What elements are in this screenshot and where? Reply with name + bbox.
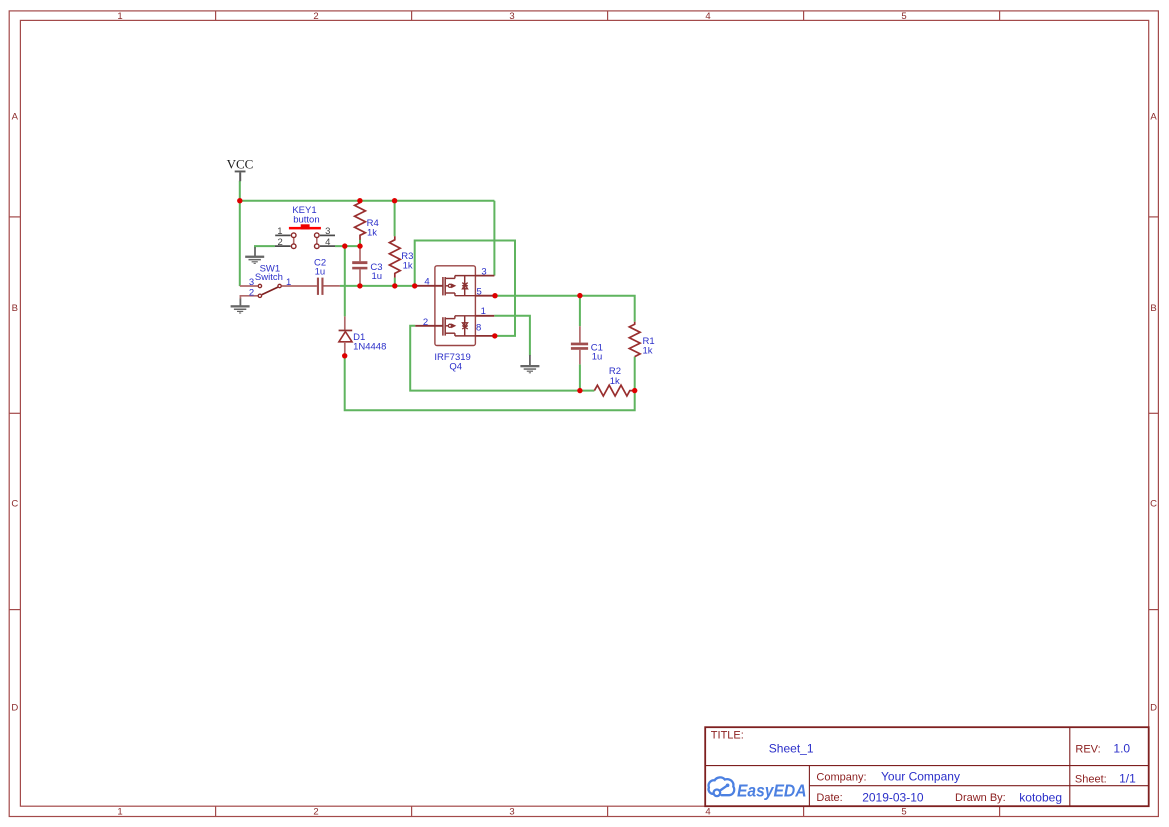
svg-text:1: 1: [117, 11, 122, 22]
Q4 lower N-FET: [415, 316, 495, 336]
wire top rail to pin3: [493, 201, 495, 276]
wire R3 top: [394, 201, 396, 237]
svg-text:1k: 1k: [403, 260, 413, 271]
svg-text:2019-03-10: 2019-03-10: [862, 790, 924, 804]
junction C1 top: [577, 293, 582, 298]
wire pin2 stub: [410, 326, 594, 391]
svg-text:C: C: [11, 499, 18, 510]
svg-text:2: 2: [313, 807, 318, 818]
svg-text:5: 5: [901, 11, 906, 22]
svg-text:1u: 1u: [372, 271, 383, 282]
svg-text:1.0: 1.0: [1113, 741, 1130, 755]
capacitor C3: [352, 246, 382, 286]
svg-text:TITLE:: TITLE:: [711, 729, 744, 741]
wire KEY1 pin2 to ground: [255, 246, 275, 248]
svg-text:VCC: VCC: [227, 157, 254, 172]
svg-text:3: 3: [249, 277, 254, 288]
wire mid to pin8 loop: [415, 241, 515, 336]
junction VCC rail left: [237, 198, 242, 203]
wire VCC vertical: [240, 181, 635, 410]
svg-text:1N4448: 1N4448: [353, 341, 386, 352]
wire R3 bottom: [394, 278, 396, 286]
svg-text:2: 2: [278, 237, 283, 248]
svg-text:1u: 1u: [315, 267, 326, 278]
svg-text:8: 8: [476, 323, 481, 334]
wire C1 bottom: [579, 364, 581, 390]
EasyEDA logo: [709, 777, 735, 796]
pushbutton KEY1: [275, 205, 335, 249]
svg-text:REV:: REV:: [1075, 743, 1100, 755]
wire C1 top: [579, 296, 581, 327]
wire pin5 to R1 top: [495, 296, 635, 322]
svg-text:D: D: [11, 703, 18, 714]
resistor R3: [389, 236, 413, 277]
svg-text:1k: 1k: [367, 228, 377, 239]
TITLE BLOCK: [705, 727, 1148, 806]
VCC symbol: [227, 157, 254, 182]
ground at KEY1 pin2: [245, 247, 264, 264]
svg-text:1/1: 1/1: [1119, 772, 1136, 786]
junction R4 top: [357, 198, 362, 203]
svg-text:1: 1: [117, 807, 122, 818]
svg-text:1: 1: [286, 277, 291, 288]
svg-text:4: 4: [424, 277, 429, 288]
ground at Q4 pin1 wire: [520, 355, 539, 373]
svg-text:B: B: [12, 303, 18, 314]
wire R1 bottom: [634, 357, 636, 391]
svg-text:Your Company: Your Company: [881, 769, 960, 783]
svg-text:A: A: [1150, 112, 1157, 123]
junction C1 bottom / R2 left: [577, 388, 582, 393]
junction Q4 pin8: [492, 333, 497, 338]
svg-text:Q4: Q4: [449, 362, 462, 373]
wire D1 bottom loop: [345, 356, 635, 411]
svg-text:B: B: [1150, 303, 1156, 314]
svg-text:5: 5: [477, 287, 482, 298]
svg-text:1: 1: [481, 306, 486, 317]
svg-text:3: 3: [325, 226, 330, 237]
junction Q4 pin5: [492, 293, 497, 298]
svg-text:Sheet_1: Sheet_1: [769, 742, 814, 756]
junction KEY1 pin4 node: [342, 243, 347, 248]
resistor R2: [594, 366, 634, 396]
svg-text:2: 2: [249, 288, 254, 299]
wire top rail: [240, 200, 495, 202]
wire pin1 to ground: [494, 316, 530, 356]
wire junction down to D1: [344, 246, 346, 316]
svg-text:3: 3: [509, 807, 514, 818]
capacitor C1: [571, 326, 603, 364]
svg-text:4: 4: [705, 11, 710, 22]
svg-text:5: 5: [901, 807, 906, 818]
svg-text:D: D: [1150, 703, 1157, 714]
CIRCUIT: [227, 157, 655, 411]
svg-text:1k: 1k: [610, 376, 620, 387]
svg-text:1u: 1u: [592, 352, 603, 363]
svg-text:1k: 1k: [643, 346, 653, 357]
svg-text:kotobeg: kotobeg: [1019, 790, 1062, 804]
svg-text:2: 2: [313, 11, 318, 22]
wire R4 bottom stub: [359, 240, 361, 247]
junction R3 bottom: [392, 283, 397, 288]
svg-text:C: C: [1150, 499, 1157, 510]
svg-text:4: 4: [705, 807, 710, 818]
resistor R4: [355, 203, 379, 240]
resistor R1: [629, 322, 654, 357]
svg-text:EasyEDA: EasyEDA: [737, 781, 807, 801]
switch SW1: [240, 264, 317, 299]
svg-text:3: 3: [509, 11, 514, 22]
svg-text:Switch: Switch: [255, 272, 283, 283]
svg-text:Sheet:: Sheet:: [1075, 774, 1107, 786]
svg-text:Company:: Company:: [816, 771, 866, 783]
Q4 body box: [435, 266, 476, 346]
junction R4/C3 node: [357, 243, 362, 248]
Q4 upper P-FET: [415, 276, 495, 296]
junction D1 anode: [342, 353, 347, 358]
dual MOSFET Q4 IRF7319: [415, 266, 495, 373]
wire KEY1 pin4 to C3 junction: [335, 245, 360, 247]
diode D1 1N4448: [339, 316, 387, 355]
wire mid rail: [340, 285, 415, 287]
junction gate node pin4: [412, 283, 417, 288]
svg-text:Drawn By:: Drawn By:: [955, 792, 1006, 804]
svg-text:2: 2: [423, 317, 428, 328]
capacitor C2: [314, 258, 340, 295]
svg-text:3: 3: [481, 267, 486, 278]
svg-text:button: button: [293, 215, 319, 226]
svg-text:1: 1: [277, 226, 282, 237]
ground at SW1 pin2: [231, 298, 250, 313]
junction C3 bottom: [357, 283, 362, 288]
svg-text:4: 4: [325, 237, 330, 248]
junction R1 bottom / R2 right: [632, 388, 637, 393]
junction R3 top: [392, 198, 397, 203]
svg-text:A: A: [12, 112, 19, 123]
svg-text:Date:: Date:: [816, 792, 842, 804]
